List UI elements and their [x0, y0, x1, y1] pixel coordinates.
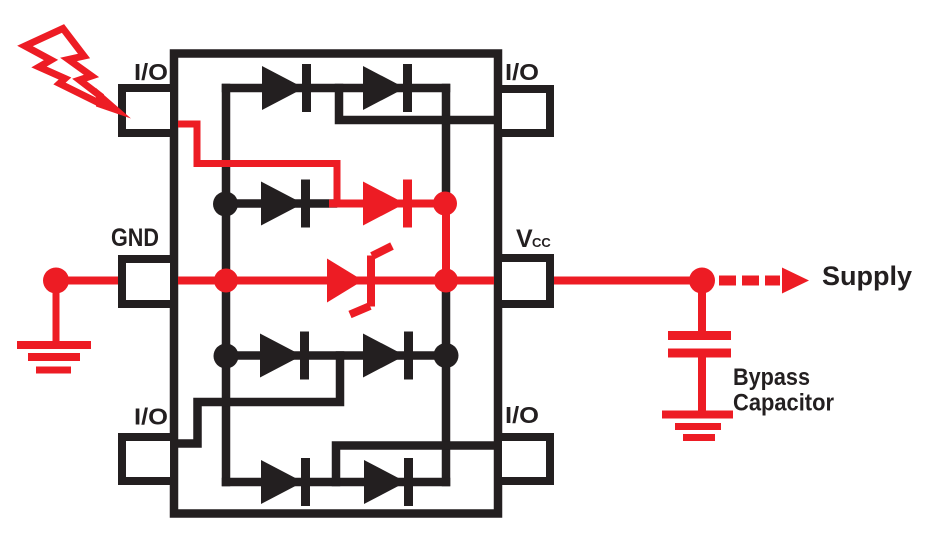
wire: row2 red segment: [333, 200, 444, 208]
wire: bottom row horizontal: [226, 478, 446, 487]
diode D4 (row2 red, conducting ESD path): [363, 180, 412, 228]
junction dot (black, row4 right bus): [434, 343, 459, 368]
junction dot (red, supply node): [689, 268, 715, 294]
pin box: top-left I/O: [122, 88, 174, 133]
wire: red right bus segment (row2 to supply rail): [442, 204, 450, 281]
wire: row2 left black segment: [226, 199, 333, 208]
wire: bottom row connector to bottom-right I/O pin: [336, 446, 498, 483]
svg-text:I/O: I/O: [134, 59, 168, 85]
wire: main red supply rail GND to Vcc to supply node: [56, 277, 702, 285]
wire: dashed supply arrow: [719, 276, 780, 286]
junction dot (red, rail x right bus): [434, 269, 458, 293]
wire: drop from row1 to top-right I/O pin: [339, 88, 498, 120]
pin box: Vcc: [498, 258, 550, 304]
junction dot (black, row2 left bus): [213, 192, 238, 217]
svg-text:I/O: I/O: [134, 404, 168, 430]
wire: capacitor to right ground: [698, 352, 706, 414]
svg-text:Bypass: Bypass: [733, 364, 810, 391]
pin box: top-right I/O: [498, 89, 550, 133]
ground (left, red): [17, 345, 91, 370]
junction dot (red, external ground node): [43, 268, 69, 294]
junction dot (red, rail x left bus): [214, 269, 238, 293]
svg-text:V: V: [516, 225, 533, 253]
diode D2 (row1 right): [363, 64, 412, 112]
svg-text:I/O: I/O: [505, 402, 539, 428]
IC body outline U1: [174, 54, 498, 514]
wire: supply node to bypass capacitor: [698, 281, 706, 341]
wire: row4 horizontal: [226, 351, 446, 360]
wire: row1 horizontal (top diode chain): [226, 84, 446, 93]
diode D1 (row1 left): [262, 64, 311, 112]
diode D7 (bottom row left): [261, 458, 310, 506]
pin box: bottom-left I/O: [122, 437, 174, 481]
ground (right, red): [662, 415, 733, 438]
junction dot (red, row2 right bus): [433, 192, 457, 216]
diode D6 (row4 right): [363, 332, 413, 380]
wire: row4 connector to bottom-left I/O pin: [171, 356, 340, 444]
capacitor C1 (bypass): [668, 336, 731, 354]
diode D3 (row2 black): [261, 180, 310, 228]
wire: stem to left ground: [53, 281, 60, 342]
svg-text:CC: CC: [532, 235, 551, 250]
diode D5 (row4 left): [260, 332, 309, 380]
ESD strike lightning bolt tip: [96, 88, 131, 119]
ESD strike lightning bolt: [25, 29, 100, 103]
pin box: GND: [122, 259, 174, 304]
pin box: bottom-right I/O: [498, 437, 550, 481]
wire: left vertical bus (black): [222, 88, 231, 482]
arrowhead to Supply: [782, 268, 809, 294]
diode D8 (bottom row right): [364, 458, 413, 506]
wire: right vertical bus lower (black): [442, 281, 451, 483]
zener diode Z1 (red, on supply rail): [327, 246, 392, 315]
junction dot (black, row4 left bus): [214, 344, 239, 369]
svg-text:Capacitor: Capacitor: [733, 390, 834, 417]
svg-text:Supply: Supply: [822, 261, 912, 291]
wire: right vertical bus upper (black): [442, 88, 451, 204]
wire: red ESD path from top-left I/O pin: [171, 124, 337, 204]
svg-text:GND: GND: [111, 224, 159, 252]
svg-text:I/O: I/O: [505, 59, 539, 85]
